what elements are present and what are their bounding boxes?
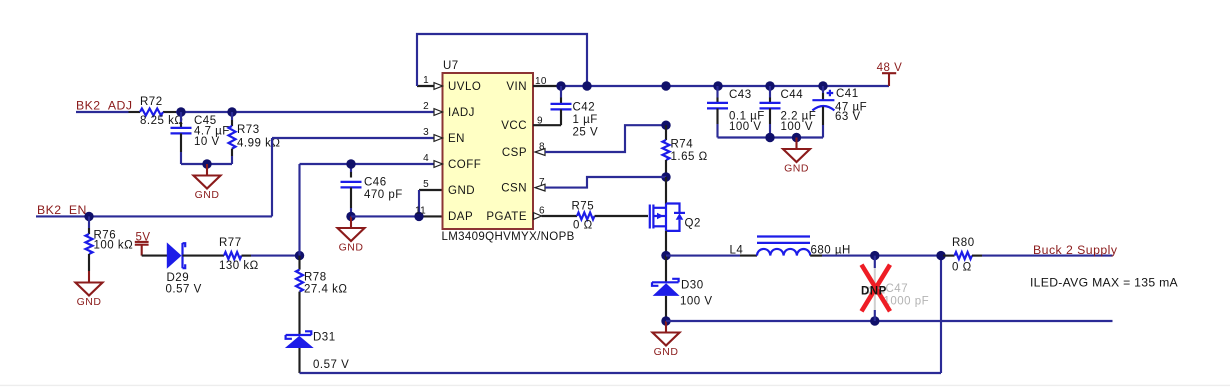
DNP marker (861, 265, 890, 312)
node (936, 251, 945, 260)
net label BK2_EN (37, 203, 87, 217)
wire CSP (545, 125, 666, 152)
resistor R76 (86, 216, 134, 271)
node (202, 159, 211, 168)
node (346, 212, 355, 221)
ground (338, 216, 365, 253)
svg-text:R74: R74 (671, 139, 694, 151)
svg-text:R73: R73 (237, 124, 260, 136)
svg-text:63 V: 63 V (835, 111, 861, 123)
resistor R74 (663, 125, 708, 177)
svg-text:1: 1 (423, 75, 429, 86)
capacitor C43 (707, 86, 765, 138)
resistor R78 (296, 256, 347, 335)
svg-text:4: 4 (423, 153, 429, 164)
diode D30 (652, 256, 713, 321)
resistor R75 (542, 201, 649, 232)
node (870, 251, 879, 260)
IC U7 LM3409QHVMYX/NOPB (415, 60, 575, 243)
resistor R77 (219, 237, 259, 272)
resistor R80 (943, 237, 982, 274)
svg-text:GND: GND (784, 163, 809, 175)
svg-text:11: 11 (415, 206, 426, 217)
ground (194, 164, 221, 201)
note ILED-AVG (1030, 276, 1179, 290)
svg-text:1.65 Ω: 1.65 Ω (671, 151, 708, 163)
svg-text:BK2_ADJ: BK2_ADJ (76, 99, 132, 113)
svg-text:ILED-AVG MAX = 135 mA: ILED-AVG MAX = 135 mA (1030, 276, 1179, 290)
node (792, 133, 801, 142)
svg-text:R75: R75 (572, 201, 595, 213)
svg-text:GND: GND (195, 189, 220, 201)
svg-text:CSN: CSN (501, 183, 527, 195)
wire Q2 source down (665, 231, 667, 256)
svg-text:L4: L4 (730, 244, 744, 256)
ground (783, 138, 810, 175)
svg-text:Buck 2 Supply: Buck 2 Supply (1033, 243, 1118, 257)
wire DAP rail (351, 215, 443, 217)
svg-text:UVLO: UVLO (448, 81, 481, 93)
svg-text:LM3409QHVMYX/NOPB: LM3409QHVMYX/NOPB (442, 231, 575, 243)
node (84, 212, 93, 221)
power 48V (877, 62, 903, 86)
svg-text:C43: C43 (729, 89, 752, 101)
svg-text:0.57 V: 0.57 V (166, 284, 202, 296)
svg-text:680 µH: 680 µH (811, 244, 851, 256)
svg-text:C47: C47 (886, 283, 909, 295)
diode D31 (285, 331, 349, 373)
node (661, 251, 670, 260)
wire L4 to R80 (810, 255, 943, 257)
svg-text:C41: C41 (836, 88, 859, 100)
wire bottom return (300, 256, 942, 373)
wire VIN row (533, 85, 889, 87)
svg-text:100 kΩ: 100 kΩ (94, 240, 134, 252)
svg-text:PGATE: PGATE (486, 211, 527, 223)
capacitor C45 (171, 112, 230, 164)
node (176, 107, 185, 116)
wire BK2_EN row (36, 215, 272, 217)
svg-text:VCC: VCC (501, 120, 527, 132)
node (765, 133, 774, 142)
capacitor C47 (DNP) (865, 256, 929, 321)
svg-text:4.99 kΩ: 4.99 kΩ (237, 138, 280, 150)
svg-text:EN: EN (448, 133, 465, 145)
node (227, 107, 236, 116)
wire Q2 to L4 (666, 255, 757, 257)
svg-text:D29: D29 (167, 272, 190, 284)
svg-text:0 Ω: 0 Ω (952, 262, 972, 274)
svg-text:27.4 kΩ: 27.4 kΩ (304, 284, 347, 296)
node (346, 159, 355, 168)
net label BK2_ADJ (76, 99, 132, 113)
wire Buck 2 Supply (982, 255, 1113, 257)
svg-text:0.57 V: 0.57 V (313, 359, 349, 371)
svg-text:130 kΩ: 130 kΩ (219, 260, 259, 272)
svg-text:100 V: 100 V (729, 121, 762, 133)
node (295, 251, 304, 260)
wire EN vertical (272, 138, 434, 216)
svg-text:8.25 kΩ: 8.25 kΩ (140, 115, 183, 127)
diode D29 (142, 242, 224, 295)
wire CSN (545, 177, 666, 188)
svg-text:GND: GND (77, 296, 102, 308)
svg-text:IADJ: IADJ (448, 107, 475, 119)
svg-text:10 V: 10 V (194, 136, 220, 148)
svg-text:2: 2 (423, 101, 429, 112)
node (661, 172, 670, 181)
svg-text:R72: R72 (140, 96, 163, 108)
svg-text:DNP: DNP (861, 286, 887, 298)
svg-text:0 Ω: 0 Ω (573, 220, 593, 232)
svg-text:C46: C46 (364, 177, 387, 189)
svg-text:VIN: VIN (506, 81, 527, 93)
node (713, 81, 722, 90)
wire R74 to Q2 drain (665, 177, 667, 204)
svg-text:C44: C44 (781, 89, 804, 101)
svg-text:1 µF: 1 µF (573, 114, 598, 126)
resistor R73 (229, 112, 281, 164)
node (414, 212, 423, 221)
power 5V (135, 231, 151, 255)
capacitor C44 (760, 86, 817, 138)
inductor L4 (730, 237, 851, 257)
node (661, 316, 670, 325)
wire UVLO top loop (417, 34, 587, 86)
svg-text:U7: U7 (443, 60, 459, 72)
transistor Q2 (650, 204, 701, 231)
resistor R72 (140, 96, 183, 127)
svg-text:R77: R77 (219, 237, 242, 249)
node (556, 81, 565, 90)
svg-text:GND: GND (654, 346, 679, 358)
wire GND pin link (419, 190, 443, 216)
capacitor C41 (polarized) (812, 86, 867, 138)
svg-text:D31: D31 (313, 331, 336, 343)
svg-text:25 V: 25 V (573, 127, 599, 139)
svg-text:C42: C42 (573, 102, 596, 114)
svg-text:DAP: DAP (448, 211, 473, 223)
svg-text:R80: R80 (952, 237, 975, 249)
wire R77 to node (242, 255, 300, 257)
svg-text:BK2_EN: BK2_EN (37, 203, 87, 217)
wire return row (666, 320, 1113, 322)
svg-text:5: 5 (423, 179, 429, 190)
svg-text:1000 pF: 1000 pF (884, 296, 930, 308)
node (661, 121, 670, 130)
svg-text:GND: GND (448, 185, 475, 197)
node (818, 81, 827, 90)
node (870, 316, 879, 325)
capacitor C46 (341, 164, 403, 216)
capacitor C42 (533, 86, 598, 139)
svg-text:CSP: CSP (502, 147, 527, 159)
svg-text:COFF: COFF (448, 159, 481, 171)
wire BK2_ADJ to IADJ (76, 111, 434, 113)
wire C45/R73 bottom rail (181, 163, 232, 165)
svg-text:470 pF: 470 pF (364, 189, 403, 201)
ground (653, 321, 680, 358)
svg-text:100 V: 100 V (781, 121, 814, 133)
svg-text:D30: D30 (681, 280, 704, 292)
wire input cap bottom rail (718, 136, 824, 138)
node (765, 81, 774, 90)
svg-text:3: 3 (423, 127, 429, 138)
net label Buck 2 Supply (1033, 243, 1118, 257)
svg-text:Q2: Q2 (685, 218, 701, 230)
wire COFF vertical (300, 164, 435, 256)
svg-text:R78: R78 (304, 272, 327, 284)
node (661, 81, 670, 90)
svg-text:100 V: 100 V (680, 296, 713, 308)
ground (76, 271, 103, 308)
node (582, 81, 591, 90)
svg-text:GND: GND (339, 241, 364, 253)
